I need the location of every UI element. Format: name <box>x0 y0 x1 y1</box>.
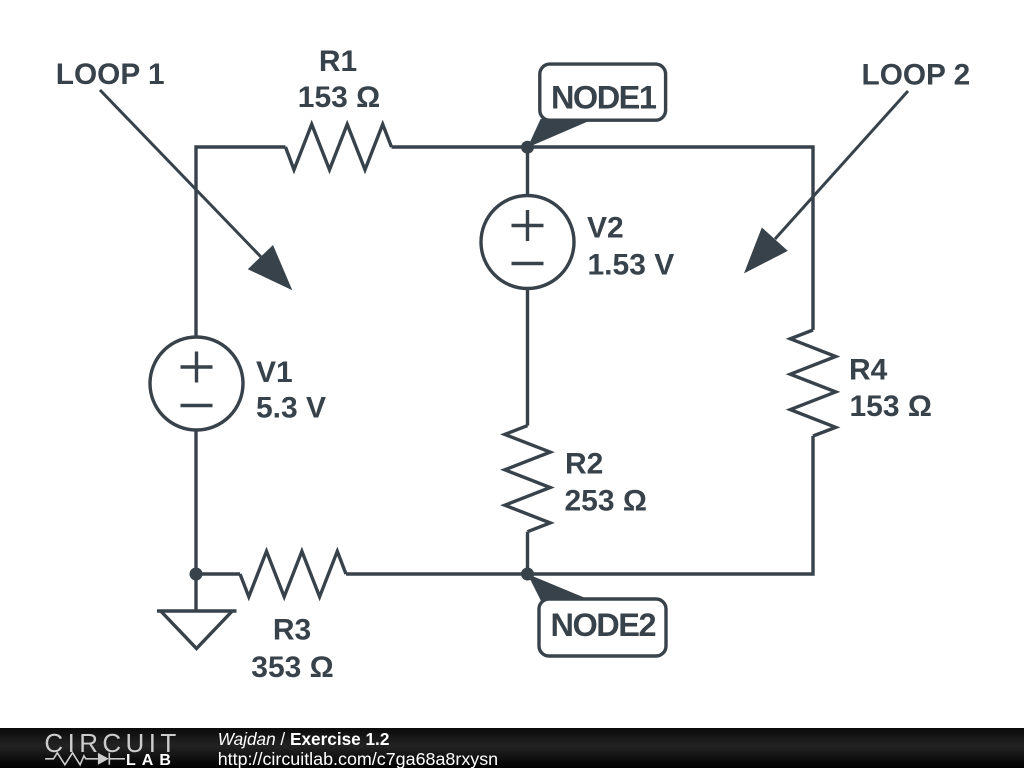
svg-text:353 Ω: 353 Ω <box>251 651 333 684</box>
resistor R3 <box>240 551 346 596</box>
wire left vertical lower <box>194 431 197 574</box>
wire right vertical lower and bottom right <box>346 436 813 574</box>
node label NODE2 callout <box>528 574 667 656</box>
resistor R2 <box>505 426 550 532</box>
resistor R4 <box>790 330 835 436</box>
svg-text:LOOP 2: LOOP 2 <box>862 58 971 91</box>
node NODE1 dot <box>521 141 534 154</box>
svg-text:NODE2: NODE2 <box>551 607 656 643</box>
voltage source V1 <box>150 337 243 430</box>
svg-text:NODE1: NODE1 <box>551 80 657 116</box>
svg-text:153 Ω: 153 Ω <box>298 81 380 114</box>
footer bar <box>0 728 1024 768</box>
wire R2 to bottom <box>526 532 529 574</box>
svg-text:153 Ω: 153 Ω <box>850 390 932 423</box>
svg-text:5.3 V: 5.3 V <box>256 392 326 425</box>
svg-text:1.53 V: 1.53 V <box>588 249 675 282</box>
wire top-left and left vertical upper <box>196 147 286 336</box>
svg-text:R4: R4 <box>849 354 888 387</box>
svg-text:R2: R2 <box>565 448 603 481</box>
resistor R1 <box>286 124 392 169</box>
wire middle top <box>526 147 529 195</box>
svg-text:http://circuitlab.com/c7ga68a8: http://circuitlab.com/c7ga68a8rxysn <box>218 749 498 768</box>
voltage source V2 <box>481 196 574 289</box>
svg-text:V1: V1 <box>256 356 293 389</box>
svg-text:R3: R3 <box>273 614 311 647</box>
logo diode symbol <box>98 753 125 765</box>
svg-text:V2: V2 <box>587 212 624 245</box>
logo resistor symbol <box>45 753 98 765</box>
wire ground stub <box>194 574 197 611</box>
wire node to R3 <box>196 572 240 575</box>
svg-text:LOOP 1: LOOP 1 <box>56 58 165 91</box>
svg-text:R1: R1 <box>319 45 357 78</box>
node label NODE1 callout <box>528 64 666 147</box>
wire V2 to R2 <box>526 290 529 426</box>
node ground junction dot <box>190 568 203 581</box>
svg-text:Wajdan / Exercise 1.2: Wajdan / Exercise 1.2 <box>218 729 390 749</box>
node NODE2 dot <box>521 568 534 581</box>
loop 1 annotation arrow <box>100 90 292 290</box>
svg-text:253 Ω: 253 Ω <box>565 485 647 518</box>
loop 2 annotation arrow <box>744 91 908 273</box>
ground <box>157 611 237 649</box>
svg-text:LAB: LAB <box>126 752 177 768</box>
wire top-right and right vertical upper <box>392 147 814 330</box>
